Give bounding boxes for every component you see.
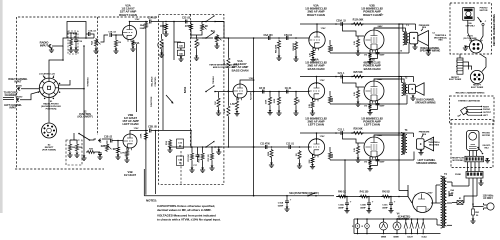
resistor bass 2nd cathode xyxy=(309,98,315,115)
resistor R6A xyxy=(160,23,168,31)
resistor R12C xyxy=(352,128,364,135)
svg-text:R17 20K: R17 20K xyxy=(188,154,190,162)
heater V2B2 xyxy=(416,219,420,234)
label cartridge left xyxy=(483,115,489,117)
svg-text:+: + xyxy=(350,200,352,204)
ground R10A xyxy=(293,51,298,61)
svg-text:C10B: C10B xyxy=(360,205,366,207)
svg-text:I2: I2 xyxy=(361,226,364,228)
wire box top xyxy=(70,133,77,143)
svg-text:R26 56K: R26 56K xyxy=(353,128,362,131)
wire V2B plate rail xyxy=(130,131,148,135)
capacitor C10A xyxy=(338,197,351,210)
svg-text:100K: 100K xyxy=(266,99,268,104)
chassis dashed inner vertical xyxy=(97,17,99,135)
capacitor CB1 xyxy=(472,209,480,217)
feedback wire bass xyxy=(330,95,407,104)
capacitor C5C xyxy=(286,144,294,150)
svg-text:C5A 10: C5A 10 xyxy=(284,34,292,37)
svg-text:LEFT CHAN: LEFT CHAN xyxy=(308,123,324,127)
capacitor C17 xyxy=(193,147,199,167)
wire S2 to left channel xyxy=(90,139,97,140)
capacitor C2A xyxy=(148,17,157,24)
label V4 xyxy=(397,213,411,222)
wire rail to junction xyxy=(151,130,192,132)
svg-text:C23 .05: C23 .05 xyxy=(182,17,191,20)
ground S2 cluster xyxy=(81,152,102,160)
switch S2 contacts xyxy=(78,133,90,141)
heater rails to T4 xyxy=(437,219,441,234)
wire to balance xyxy=(191,35,213,38)
volume pot R2B xyxy=(101,143,112,152)
svg-text:1M: 1M xyxy=(118,42,121,44)
svg-text:220K: 220K xyxy=(141,133,143,138)
resistor R4B cathode xyxy=(120,148,129,162)
svg-text:245V: 245V xyxy=(378,25,383,28)
tube V3B right xyxy=(364,30,384,52)
resistor R1 in box xyxy=(67,143,75,157)
label bass 2nd AF xyxy=(305,58,327,71)
switch S2 wafer bass xyxy=(205,85,216,92)
resistor R11A cathode xyxy=(309,47,315,62)
svg-text:1M: 1M xyxy=(112,149,115,151)
label balance control xyxy=(151,76,174,104)
wire CB1 xyxy=(470,204,475,223)
svg-text:C16A: C16A xyxy=(278,202,284,205)
label cartridge right xyxy=(483,106,490,108)
svg-text:40MF: 40MF xyxy=(360,206,366,209)
svg-text:R25 56K: R25 56K xyxy=(353,71,362,74)
wire left to supply xyxy=(344,159,346,197)
label V1A xyxy=(232,59,249,72)
svg-text:50MF: 50MF xyxy=(380,162,386,164)
ground speaker left xyxy=(418,149,423,155)
label stereo cartridge xyxy=(458,99,480,102)
svg-text:LEFT: LEFT xyxy=(483,115,489,117)
wire S2 lower cluster xyxy=(83,140,85,152)
function switch dashed divider xyxy=(190,14,192,147)
wire left input to S1 xyxy=(20,92,40,100)
cartridge terminals xyxy=(466,106,482,116)
ground R10B xyxy=(293,106,298,115)
svg-text:to chassis with a VTVM, ±10% N: to chassis with a VTVM, ±10% No signal i… xyxy=(157,217,221,221)
wire long vertical 146 xyxy=(145,30,147,195)
svg-text:C8 10: C8 10 xyxy=(259,88,266,90)
svg-text:T4: T4 xyxy=(444,173,447,176)
speaker left channel xyxy=(417,137,434,151)
wire S1 right out xyxy=(59,80,70,85)
svg-text:MOTOR BD): MOTOR BD) xyxy=(452,160,463,162)
capacitor C22 xyxy=(96,152,102,157)
ground plug xyxy=(463,46,470,51)
svg-text:REJ: REJ xyxy=(485,147,490,149)
resistor grid V3B right xyxy=(354,36,361,55)
svg-text:R20: R20 xyxy=(89,149,94,151)
svg-text:220K: 220K xyxy=(140,28,145,30)
wire C20B to grid xyxy=(343,77,365,88)
label left channel input xyxy=(4,104,22,110)
svg-text:INPUT: INPUT xyxy=(10,107,18,110)
wire V3B left plate to T3 xyxy=(374,135,399,137)
switch S2A break xyxy=(307,193,317,197)
capacitor bass bypass xyxy=(376,101,386,110)
svg-text:R18 270K: R18 270K xyxy=(199,153,201,162)
svg-text:R16: R16 xyxy=(166,140,168,145)
switch S2 wafer top rail xyxy=(205,15,216,22)
tube V2A xyxy=(123,26,137,42)
interlock receptacle xyxy=(466,172,483,179)
ground radio jack xyxy=(49,48,54,53)
record changer dashed box lower xyxy=(451,120,493,168)
resistor R9A xyxy=(274,40,280,54)
svg-text:245V: 245V xyxy=(378,78,383,81)
resistor bass takeoff R21 xyxy=(224,38,230,92)
wire radio input right xyxy=(52,38,66,46)
chassis dashed outline bottom xyxy=(15,168,104,170)
svg-text:C12 .01: C12 .01 xyxy=(286,144,294,146)
svg-text:245V: 245V xyxy=(378,134,383,137)
wire network out xyxy=(66,37,94,39)
receptacle elec tuner left xyxy=(456,58,463,74)
wire T3 primary top xyxy=(374,133,414,138)
chassis dashed outline top xyxy=(18,16,159,18)
wire pot wiper out xyxy=(101,35,109,42)
svg-text:OFF-REJ: OFF-REJ xyxy=(465,26,475,28)
capacitor C6A xyxy=(264,34,274,40)
speaker right channel xyxy=(409,31,428,46)
wire scratch top xyxy=(169,147,171,148)
svg-text:RECORD CHANGER WIRING: RECORD CHANGER WIRING xyxy=(456,92,485,95)
wire cap to grid xyxy=(111,34,122,36)
ground tone xyxy=(178,56,183,61)
svg-text:C: C xyxy=(485,21,487,23)
svg-text:1M: 1M xyxy=(204,26,207,28)
svg-text:LOCATING LUG: LOCATING LUG xyxy=(39,73,55,76)
wire network top join xyxy=(67,32,77,34)
terminal strip lower xyxy=(465,156,484,162)
ground R3B xyxy=(115,154,120,159)
tube V1A bass xyxy=(233,84,247,100)
wire left input xyxy=(102,138,110,140)
resistor feedback right xyxy=(328,40,334,53)
wire R7A-R8A join xyxy=(191,22,202,36)
pilot lamp I2 xyxy=(361,219,369,234)
label S2A function xyxy=(289,192,319,195)
svg-text:T1: T1 xyxy=(406,24,409,27)
wire bottom left vertical xyxy=(143,169,145,196)
svg-text:R40 1K: R40 1K xyxy=(338,191,346,194)
wire control unit drop xyxy=(155,131,157,195)
switch motor top xyxy=(478,17,487,26)
svg-text:(FOR TUNER): (FOR TUNER) xyxy=(42,150,56,152)
label tweeter xyxy=(434,35,448,42)
ground R18 xyxy=(200,161,205,172)
receptacle E2 xyxy=(42,123,57,138)
label fuse xyxy=(455,174,461,176)
wire B+ rail right chan xyxy=(300,23,416,25)
wire bass plate xyxy=(316,77,318,85)
ground C10B xyxy=(366,204,371,213)
svg-text:OUTPUT: OUTPUT xyxy=(483,112,492,114)
feedback wire left xyxy=(330,152,414,161)
wire plate rail xyxy=(129,21,148,23)
svg-text:100K: 100K xyxy=(332,153,334,158)
svg-text:+: + xyxy=(394,200,396,204)
resistor R20 xyxy=(86,149,96,154)
svg-text:RIGHT CHAN: RIGHT CHAN xyxy=(119,13,137,17)
tube V3A bass xyxy=(308,83,324,102)
phono jack left xyxy=(98,137,113,143)
label S2 xyxy=(77,112,92,119)
svg-text:R12A 56K: R12A 56K xyxy=(353,19,364,22)
wire long vertical B+ right xyxy=(380,14,399,191)
heater rail bottom xyxy=(354,233,437,235)
label on-off-rej top xyxy=(465,23,475,28)
motor symbol lower xyxy=(467,131,480,151)
capacitor C16A xyxy=(278,195,292,212)
AC plug xyxy=(484,203,495,210)
resistor R12A xyxy=(352,19,364,26)
record changer wire pair xyxy=(3,98,14,100)
svg-text:40MF: 40MF xyxy=(382,206,388,209)
label bass speaker wiring xyxy=(415,99,436,105)
transformer T3 xyxy=(401,129,408,155)
resistor 100K bass xyxy=(266,92,273,115)
transformer T4 xyxy=(441,173,448,228)
wire motor to strip xyxy=(470,151,477,157)
svg-text:2.2K: 2.2K xyxy=(309,159,311,163)
svg-text:R9A 220K: R9A 220K xyxy=(274,44,277,53)
resistor R41 150 xyxy=(359,191,369,199)
svg-text:6BM8: 6BM8 xyxy=(381,236,387,238)
svg-text:MOTOR: MOTOR xyxy=(482,135,490,137)
label V3A xyxy=(305,4,327,17)
wire motor to plug xyxy=(468,20,483,41)
svg-text:RIGHT CHAN: RIGHT CHAN xyxy=(307,13,325,17)
svg-text:170V: 170V xyxy=(320,80,325,82)
ground R1A xyxy=(68,47,73,52)
label record changer vertical xyxy=(493,14,496,46)
capacitor C4A xyxy=(177,48,184,58)
wire long vertical 254 xyxy=(253,38,255,197)
resistor R10B xyxy=(294,92,300,107)
ground R9A xyxy=(276,50,281,61)
wire left coupling drop xyxy=(190,131,192,148)
svg-text:SPEAKER WIRING: SPEAKER WIRING xyxy=(416,162,437,165)
resistor grid R2A xyxy=(113,35,121,53)
wire balance to S2 xyxy=(214,43,219,48)
svg-text:FUNCTION: FUNCTION xyxy=(151,96,153,107)
notes text xyxy=(146,199,221,222)
volume pot R3A xyxy=(91,38,101,47)
wire right input to S1 xyxy=(21,88,39,90)
stereo cartridge dashed box xyxy=(450,96,495,124)
svg-text:INPUT: INPUT xyxy=(15,81,23,84)
svg-text:BASS CHAN: BASS CHAN xyxy=(232,68,249,72)
label treble vertical xyxy=(213,75,215,84)
heater V3 left xyxy=(393,219,401,238)
svg-text:C1A .02: C1A .02 xyxy=(108,31,116,34)
wire V1A plate xyxy=(240,79,254,84)
svg-text:30: 30 xyxy=(179,163,182,165)
svg-text:TREBLE: TREBLE xyxy=(213,75,215,84)
svg-text:BASS: BASS xyxy=(184,86,187,93)
label locating lug xyxy=(39,73,55,79)
transformer T2 xyxy=(402,77,409,96)
ground speaker bass xyxy=(410,95,415,101)
wire S1 out to term xyxy=(59,88,84,90)
svg-text:+: + xyxy=(372,200,374,204)
label S1 xyxy=(41,101,61,111)
resistor bass cathode xyxy=(230,92,252,116)
switch lower xyxy=(477,147,483,155)
heater V4h xyxy=(421,219,427,238)
svg-text:C9 .01: C9 .01 xyxy=(285,88,292,90)
label pressure res left xyxy=(419,132,430,138)
ground lower box xyxy=(485,158,490,163)
wire scratch joins xyxy=(191,146,213,148)
svg-text:10K: 10K xyxy=(224,109,226,113)
ground C10A xyxy=(344,204,349,213)
phono motor symbol xyxy=(463,8,474,21)
wire long vertical 163 xyxy=(162,22,164,131)
svg-text:FUSE: FUSE xyxy=(455,174,461,176)
svg-text:RIGHT CHAN: RIGHT CHAN xyxy=(363,13,381,17)
svg-text:STEREO CARTRIDGE: STEREO CARTRIDGE xyxy=(458,99,480,102)
label recept motor bd xyxy=(452,158,464,162)
svg-text:RECTIFIER: RECTIFIER xyxy=(397,219,409,221)
svg-text:170V: 170V xyxy=(134,128,139,130)
wire supply rail xyxy=(336,196,408,198)
svg-text:PHONO: PHONO xyxy=(16,97,23,99)
svg-text:C7A: C7A xyxy=(78,40,82,43)
wire left plate xyxy=(316,133,318,140)
label tweeter left xyxy=(428,140,440,147)
capacitor C19 xyxy=(376,157,386,166)
svg-text:ELEC TUNER: ELEC TUNER xyxy=(471,87,484,89)
svg-text:SPEAKER WIRING: SPEAKER WIRING xyxy=(415,101,436,104)
label left speaker wiring xyxy=(416,159,437,165)
capacitor C6C xyxy=(260,143,270,150)
label phono motor lower xyxy=(482,132,490,137)
wire pot left xyxy=(106,141,108,144)
svg-text:R22 47K: R22 47K xyxy=(250,92,253,100)
label on-off-rej lower xyxy=(482,145,491,149)
resistor R10C xyxy=(296,150,301,160)
label recept left xyxy=(449,77,462,81)
ground coupling mid xyxy=(216,146,221,154)
wire tone vertical xyxy=(174,22,181,61)
label right channel input xyxy=(8,78,28,84)
wire R3B top xyxy=(117,140,119,146)
capacitor C5B xyxy=(285,88,292,94)
wire V3A plate xyxy=(316,24,318,33)
svg-text:R4A: R4A xyxy=(135,42,140,45)
label record changer wiring mid xyxy=(456,92,485,95)
svg-text:BASS CHAN: BASS CHAN xyxy=(364,67,381,71)
capacitor C20A xyxy=(336,20,346,27)
capacitor C10C xyxy=(382,197,395,210)
record changer dashed box top xyxy=(450,3,492,54)
wire V2A cathode down xyxy=(136,44,138,112)
svg-text:ELEC TUNER: ELEC TUNER xyxy=(449,79,462,81)
left page edge shading xyxy=(0,0,3,213)
svg-text:12AX7: 12AX7 xyxy=(407,235,414,238)
svg-text:BASS CHAN: BASS CHAN xyxy=(308,67,325,71)
capacitor C20C xyxy=(338,129,345,136)
svg-text:RECORD CHANGER WIRING: RECORD CHANGER WIRING xyxy=(493,14,496,46)
capacitor C6B xyxy=(259,88,266,94)
wire C20A to V3B grid xyxy=(343,24,365,36)
resistor R7A xyxy=(185,23,193,31)
wire AC to T4 xyxy=(452,182,484,225)
input network loop xyxy=(67,22,87,39)
resistor R12B xyxy=(352,71,364,78)
fuse F1 xyxy=(457,198,463,205)
tube V4 rectifier xyxy=(413,193,433,213)
wire S1 to radio input xyxy=(49,59,64,78)
scratch filter dashed divider xyxy=(180,151,182,184)
svg-text:1M: 1M xyxy=(79,147,82,149)
svg-text:2.2K: 2.2K xyxy=(309,52,311,56)
svg-text:.05: .05 xyxy=(451,192,455,194)
balance pot xyxy=(211,30,222,43)
svg-text:R2B: R2B xyxy=(101,146,106,148)
svg-text:AC ONLY: AC ONLY xyxy=(483,197,493,200)
ground R16 xyxy=(167,147,172,152)
svg-text:RIGHT: RIGHT xyxy=(483,106,490,108)
capacitor C3A xyxy=(177,42,184,48)
heater V3 right xyxy=(380,219,388,238)
resistor R42 82 xyxy=(381,191,391,199)
chassis dashed outline left xyxy=(16,17,18,169)
resistor R17 xyxy=(188,147,194,162)
resistor R2 in box xyxy=(74,143,82,157)
svg-text:SPEAKER WIRING: SPEAKER WIRING xyxy=(420,50,441,53)
svg-text:1M: 1M xyxy=(296,153,298,156)
resistor R9C xyxy=(268,149,273,159)
ground C7A xyxy=(73,41,78,52)
wire rail to S2 box xyxy=(202,22,228,39)
wire bass coupling rail xyxy=(247,91,310,93)
capacitor C7A xyxy=(74,33,83,43)
svg-text:CB1: CB1 xyxy=(475,212,480,214)
svg-text:LEFT CHAN: LEFT CHAN xyxy=(364,123,380,127)
label cartridge output xyxy=(483,112,492,114)
wire term vertical xyxy=(83,45,85,133)
capacitor C7A2 xyxy=(108,31,116,38)
wire B+ rail bass xyxy=(300,76,414,78)
wire C20C to grid xyxy=(343,133,365,143)
resistor R5B xyxy=(141,130,148,141)
svg-text:100K: 100K xyxy=(332,97,334,102)
svg-text:40MF: 40MF xyxy=(338,206,344,209)
svg-text:170: 170 xyxy=(364,55,368,57)
label V1B xyxy=(124,170,137,177)
svg-text:220K: 220K xyxy=(274,98,276,103)
label to record changer xyxy=(4,92,18,98)
svg-text:C17: C17 xyxy=(193,165,197,167)
wire bottom rail AC xyxy=(144,195,334,197)
switch S1 rotary xyxy=(38,77,61,100)
resistor bass takeoff lower xyxy=(224,92,230,148)
svg-text:LEFT CHAN: LEFT CHAN xyxy=(123,122,139,126)
label V2B xyxy=(122,113,139,126)
ground speaker right xyxy=(412,44,417,50)
wire T4 secondary taps xyxy=(447,182,452,225)
wire rail into rectifier xyxy=(408,185,412,203)
svg-text:C1A .02: C1A .02 xyxy=(88,30,96,33)
